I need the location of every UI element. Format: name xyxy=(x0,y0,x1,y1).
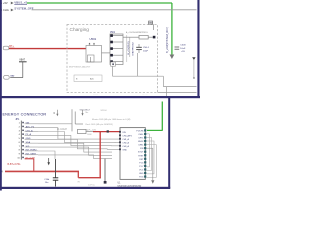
svg-text:ENERGY CONNECTOR: ENERGY CONNECTOR xyxy=(3,112,47,116)
svg-text:CH0_A/P2: CH0_A/P2 xyxy=(122,134,132,137)
svg-text:INT_HORZ: INT_HORZ xyxy=(26,150,38,152)
svg-text:C503: C503 xyxy=(180,45,186,47)
svg-text:SZC04: SZC04 xyxy=(101,110,107,112)
svg-text:TEST: TEST xyxy=(138,155,144,157)
svg-text:GND: GND xyxy=(122,149,127,151)
svg-text:..........: .......... xyxy=(93,94,98,96)
svg-text:VIN: VIN xyxy=(26,123,30,125)
svg-text:Charging: Charging xyxy=(70,27,90,33)
svg-text:C10b: C10b xyxy=(44,179,50,181)
svg-text:Rock 1005 (Mfr p/n GRM155): Rock 1005 (Mfr p/n GRM155) xyxy=(86,123,114,126)
svg-text:GND: GND xyxy=(148,23,153,25)
svg-text:C50-1: C50-1 xyxy=(143,47,150,49)
svg-text:VBAT: VBAT xyxy=(19,59,25,62)
svg-text:CH1_A: CH1_A xyxy=(26,129,34,132)
svg-text:+5V: +5V xyxy=(181,51,185,53)
svg-text:U501: U501 xyxy=(90,37,97,41)
svg-text:XOUT: XOUT xyxy=(138,152,144,154)
svg-text:STAT/PROG2: STAT/PROG2 xyxy=(132,41,135,55)
svg-text:10uF: 10uF xyxy=(180,48,186,50)
svg-text:B_+5V(SYSTEM_OFF): B_+5V(SYSTEM_OFF) xyxy=(166,27,169,53)
svg-text:10uF: 10uF xyxy=(143,50,149,52)
svg-text:A_+5V/CHG/STAT/PROG: A_+5V/CHG/STAT/PROG xyxy=(126,31,148,34)
svg-text:VBUS_+5: VBUS_+5 xyxy=(14,1,27,5)
svg-text:INT_VERT: INT_VERT xyxy=(26,154,37,156)
svg-text:MCP73831T-2ACI/OT: MCP73831T-2ACI/OT xyxy=(69,66,91,69)
svg-text:ADC_P2: ADC_P2 xyxy=(26,125,35,128)
svg-text:GND2: GND2 xyxy=(138,141,144,143)
svg-text:P1/CH5: P1/CH5 xyxy=(136,130,144,132)
svg-text:GND: GND xyxy=(26,138,31,140)
svg-text:6 CHG: 6 CHG xyxy=(1,8,9,12)
svg-text:1608: 1608 xyxy=(87,134,91,136)
svg-text:CH7L: CH7L xyxy=(138,138,144,140)
svg-text:Murata 1005 (Mfr p/n 1608 draw: Murata 1005 (Mfr p/n 1608 drawn to LQM) xyxy=(92,118,131,121)
svg-text:1 +5V: 1 +5V xyxy=(1,1,8,5)
svg-text:SDA: SDA xyxy=(26,141,31,144)
svg-text:CH3_A: CH3_A xyxy=(122,145,129,148)
svg-text:CH1_A: CH1_A xyxy=(122,138,129,141)
svg-text:CH2_A: CH2_A xyxy=(122,141,129,144)
svg-text:L1 100uH: L1 100uH xyxy=(57,129,67,131)
svg-text:CH6L: CH6L xyxy=(138,134,144,136)
svg-text:P3_A: P3_A xyxy=(26,133,32,136)
svg-text:VIN: VIN xyxy=(122,132,126,134)
svg-text:SYSTEM_OFF: SYSTEM_OFF xyxy=(14,6,34,10)
svg-text:C1? 1u: C1? 1u xyxy=(88,185,96,187)
svg-text:B-BT+/CHG: B-BT+/CHG xyxy=(8,163,21,166)
svg-text:VCC: VCC xyxy=(139,169,144,171)
svg-text:CH8L: CH8L xyxy=(138,145,144,147)
svg-text:BAT: BAT xyxy=(11,75,16,78)
svg-text:.... .. ...: .... .. ... xyxy=(142,94,148,96)
svg-text:XIN: XIN xyxy=(140,148,144,150)
svg-text:GND: GND xyxy=(139,173,144,175)
svg-text:JP1: JP1 xyxy=(15,118,20,121)
svg-text:Mu: Mu xyxy=(86,112,89,114)
